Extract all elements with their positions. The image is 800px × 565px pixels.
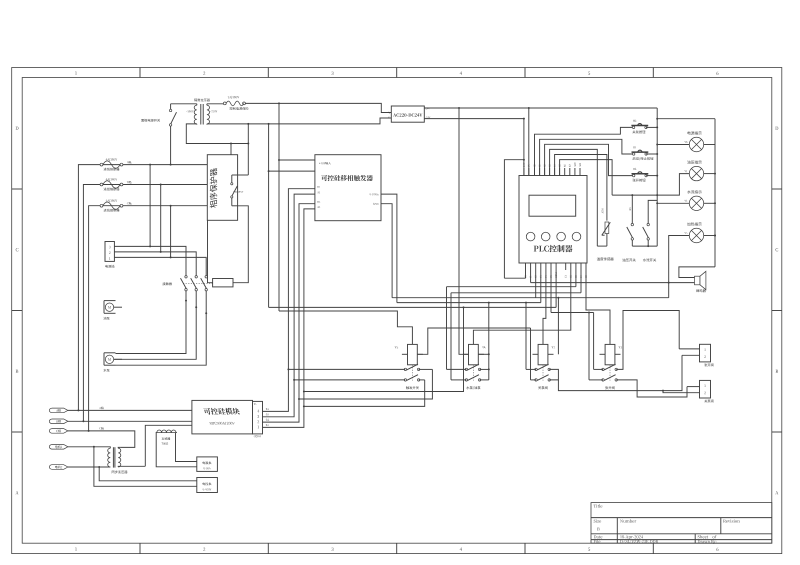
output bus wire 4 <box>392 297 669 299</box>
port flag B相 <box>49 419 68 424</box>
relay Y3 contact feeds <box>593 313 595 370</box>
border column ticks bottom <box>139 543 141 553</box>
temperature sensor label 温度传感器 <box>597 257 614 260</box>
panel power switch S1 <box>170 104 172 110</box>
wire motor1 flag to sync transformer top <box>68 446 108 448</box>
push button X0 关泵按钮 <box>632 126 634 128</box>
wire fuse F2 input to B-phase rail <box>83 185 100 422</box>
lamp 油压指示 right wire <box>704 173 715 175</box>
wire SCR pin3 G1 to trigger A1 <box>263 194 315 417</box>
indicator lamp 水流指示 <box>689 196 703 210</box>
relay Y2 coil <box>538 344 548 364</box>
wire trigger GND to PLC bus <box>381 204 392 298</box>
wire junction vertical to control bus and phase protector right pin <box>247 124 249 175</box>
ammeter P1 电流表 <box>197 457 218 472</box>
title block <box>591 503 772 544</box>
thermistor RT1 temperature sensor <box>605 222 609 234</box>
wire CT right leg to ammeter <box>176 433 197 462</box>
wire switch bottom to phase A fuse line <box>170 126 172 165</box>
wire CT left leg to ammeter <box>156 433 197 467</box>
wire fuse F3 output to phase protector <box>123 205 207 207</box>
wire +24V bus from AC-DC module to right bus <box>424 107 657 109</box>
wire gate tap to bus <box>304 307 464 391</box>
lamp 电源指示 right wire <box>704 144 715 146</box>
wire phase taps down to plug wires <box>149 165 151 247</box>
transformer label 隔离变压器 <box>194 99 210 102</box>
SCR module terminal strip CON4 <box>253 401 263 434</box>
wire motor2 flag to sync transformer bottom <box>68 466 108 468</box>
PLC display window <box>529 195 576 216</box>
wire contactor pole3 to pumps <box>116 291 207 365</box>
relay Y5 contact 2 <box>404 379 406 381</box>
border column numbers <box>75 72 77 75</box>
relay Y2 contact 1 <box>535 368 537 370</box>
sheet inner border frame <box>22 78 772 544</box>
lamp 加热指示 right wire <box>704 235 715 237</box>
long vertical feed wire 2 <box>278 103 280 311</box>
fuse name label 控制电源保险 <box>230 107 249 110</box>
wire gate net to relay Y5 contact1 <box>299 369 432 399</box>
relay Y4 contact 1 <box>465 368 467 370</box>
relay Y2 contact 2 <box>535 379 537 381</box>
relay Y3 linkage dotted line <box>609 365 611 381</box>
output bus wire 6 <box>269 306 556 308</box>
PLC input bundle wire to button X1 <box>540 139 633 175</box>
indicator lamp 加热指示 <box>689 228 703 242</box>
wire transformer primary bottom return to phase protector right pin <box>186 124 248 144</box>
wire SCR pin1 K2 to trigger A2 <box>263 209 315 428</box>
wire trigger 0V input <box>269 170 315 172</box>
wire phase protector top pin to return wire <box>230 144 232 155</box>
port flag A相 <box>49 408 68 413</box>
wire phase C to sync transformer <box>68 431 135 448</box>
indicator lamp 油压指示 <box>689 166 703 180</box>
output bus wire 5 <box>397 302 541 304</box>
push button X2 张开按钮 <box>633 174 635 176</box>
relay Y2 contact feeds <box>525 303 527 370</box>
wire contactor pole1 to pumps <box>116 291 187 354</box>
wire 0V from AC-DC module to PLC pin <box>424 118 524 120</box>
wire fuse to AC-DC module input L <box>245 103 391 112</box>
wire switch feed bus <box>612 194 657 196</box>
wire phase protector right pin down to contactor coil <box>233 206 248 283</box>
relay Y5 contact right stubs <box>419 368 433 370</box>
phase label B相 <box>127 181 132 184</box>
relay Y5 contact label 触发开关 <box>406 386 419 389</box>
border column ticks top <box>139 68 141 78</box>
phase label A相 <box>127 161 132 164</box>
relay Y4 coil <box>469 344 479 364</box>
output bus wire 1 <box>504 277 525 279</box>
relay Y5 linkage dotted line <box>411 365 413 381</box>
relay Y2 contact output long wire to connector J2 <box>558 355 682 390</box>
output bus wire 3 <box>451 292 581 294</box>
relay Y5 contact2 left feed from gate wire <box>294 379 405 381</box>
relay Y3 contact2 output to connector J3 <box>616 380 687 397</box>
relay Y2 coil feed from PLC <box>543 270 546 344</box>
phase sequence protector U2 相序保护器 <box>207 155 237 221</box>
relay Y3 contact label 张开阀 <box>605 386 614 389</box>
relay Y5 coil <box>408 344 418 364</box>
wire lamp bus to buzzer <box>679 267 715 278</box>
wire buzzer return to PLC pin <box>531 282 695 284</box>
wire sync transformer secondary up to SCR module <box>145 425 192 466</box>
phase protector internal switch <box>231 175 233 183</box>
port flag 电机2 <box>49 465 68 470</box>
lamp return bus vertical <box>714 119 716 267</box>
wire plug pin2 to contactor pole 2 <box>114 252 196 276</box>
incoming line fuse F2 4A/380V 进线熔断器 phase B <box>100 183 103 186</box>
wire trigger +10V input <box>279 159 315 161</box>
sync transformer T2 同步变压器 <box>108 448 111 467</box>
right supply bus vertical <box>656 108 658 246</box>
wire plug pin3 to contactor pole 1 <box>114 246 186 275</box>
wire SCR pin4 K1 to trigger K1 <box>263 189 315 412</box>
transformer voltage labels <box>186 110 194 112</box>
contactor linkage dashed line <box>183 283 213 285</box>
wire phase A to SCR module <box>68 409 192 411</box>
water flow switch SF1 <box>648 200 657 223</box>
wire gate net to relay Y5 contact2 <box>304 380 425 407</box>
push button X1 启动/停止按钮 <box>633 153 635 155</box>
wire fuse F1 input to A-phase rail <box>78 165 100 411</box>
wire motor2 tap to voltmeter <box>99 467 197 481</box>
wire thermistor bottom to sensor return <box>606 234 608 247</box>
X3 net label <box>629 208 631 211</box>
fuse rating label 1A/380V <box>228 96 240 99</box>
AC220-DC24V power supply module U3 <box>391 106 424 122</box>
relay Y2 contact label 关泵阀 <box>538 386 547 389</box>
relay Y5 contact1 left feed from gate wire <box>288 368 405 370</box>
incoming line fuse F3 4A/380V 进线熔断器 phase C <box>100 204 103 207</box>
port flag 电机1 <box>49 444 68 449</box>
control power fuse F0 1A/380V <box>223 102 226 105</box>
power plug connector J1 电源插 <box>105 242 114 262</box>
relay Y5 coil side pins <box>402 353 408 355</box>
relay Y3 contact1 output to connector J2 <box>616 311 679 370</box>
valve connector J3 关泵阀 <box>700 380 711 398</box>
PLC input bundle wire to thermistor <box>555 155 607 221</box>
relay Y4 coil feed from PLC <box>473 270 570 344</box>
border row ticks left and right <box>12 188 23 190</box>
wires to connector J2 <box>679 348 699 350</box>
relay Y2 linkage dotted line <box>542 365 544 381</box>
wire fuse F3 input to C-phase rail <box>89 206 101 431</box>
valve connector J2 张开阀 <box>700 344 711 362</box>
output bus wire 7 <box>550 270 552 313</box>
relay Y5 contact 1 <box>404 368 406 370</box>
relay Y3 contact 2 <box>602 379 604 381</box>
relay Y4 coil right wire to bus <box>478 353 489 355</box>
relay Y3 coil <box>605 344 615 364</box>
output bus wire 2 <box>447 286 576 288</box>
relay Y4 contact feeds <box>446 287 448 370</box>
wire transformer secondary top to control fuse <box>207 103 224 105</box>
relay Y3 coil side pins <box>600 353 606 355</box>
long vertical feed wire 1 <box>268 124 270 308</box>
relay Y3 contact 1 <box>602 368 604 370</box>
contactor label 接触器 <box>162 282 171 285</box>
wire transformer secondary bottom to AC-DC module input N <box>207 118 391 124</box>
wire SCR pin2 G2 to trigger K2 <box>263 204 315 422</box>
wire PLC 0V tap to output bus <box>504 160 524 279</box>
relay Y2 contact output loop <box>549 369 558 380</box>
wire button X2 to right bus <box>646 175 657 177</box>
PLC input bundle wire to pressure-flow switches <box>560 160 613 196</box>
wire panel switch to transformer primary top <box>171 103 197 105</box>
relay Y5 coil feed from vertical 2 <box>279 311 412 344</box>
current transformer coil <box>156 430 177 433</box>
wire lamp3 feed from supply bus <box>657 202 689 204</box>
oil pump motor M1 油泵 <box>104 300 116 302</box>
voltmeter P2 电压表 <box>197 478 218 493</box>
lamp 水流指示 right wire <box>704 202 715 204</box>
wire motor1 tap to voltmeter <box>94 447 197 487</box>
PLC label PLC控制器 <box>534 245 573 252</box>
relay Y3 coil feed from PLC <box>586 270 610 344</box>
relay Y4 linkage dotted line <box>472 365 474 381</box>
relay Y4 contact label 水泵/油泵 <box>466 386 480 389</box>
wire +24V drop to PLC top pin <box>528 108 530 176</box>
contactor coil KM1 <box>213 279 233 287</box>
wire button X0 to right bus <box>646 126 657 128</box>
panel switch label 面板电源开关 <box>141 119 160 122</box>
wire plug pin1 to contactor pole 3 <box>114 257 206 275</box>
wire phase protector switch bottom to right pin <box>232 205 238 207</box>
wire lamp supply top <box>657 118 715 120</box>
oil pressure switch SP1 <box>631 195 633 223</box>
relay Y4 contact output stubs <box>480 368 489 370</box>
wire switches common return <box>631 240 633 246</box>
wire 0V drop to PLC top pin <box>523 119 525 176</box>
wire contactor pole2 to pumps <box>114 291 196 359</box>
isolation transformer T1 隔离变压器 <box>194 105 197 124</box>
relay Y2 coil side pins <box>533 353 539 355</box>
wire phase protector switch top to right pin <box>232 174 238 176</box>
indicator lamp 电源指示 <box>689 137 703 151</box>
wire lamp4 feed from output bus <box>669 236 690 298</box>
wire phase protector bottom pin to contactor coil left <box>208 220 213 282</box>
wire lamp1 to supply bus <box>657 144 689 146</box>
PLC buttons <box>526 232 535 241</box>
PLC top pins <box>523 168 525 176</box>
buzzer LS1 蜂鸣器 <box>695 276 701 285</box>
relay Y2 coil right wire <box>557 298 559 355</box>
relay Y4 contact 2 <box>465 379 467 381</box>
PLC input bundle wire to temperature sensor return <box>550 149 598 246</box>
SCR module U4 可控硅模块 <box>192 400 253 434</box>
wire button X1 to right bus <box>646 153 657 155</box>
PLC input bundle wire to button X2 <box>545 144 633 175</box>
border row letters <box>16 127 19 130</box>
port flag C相 <box>49 429 68 434</box>
contactor KM1 接触器 three poles <box>185 276 187 278</box>
phase label C相 <box>127 202 132 205</box>
PLC bottom pins <box>525 263 527 270</box>
water pump motor M2 水泵 <box>104 352 116 354</box>
incoming line fuse F1 4A/380V 进线熔断器 phase A <box>100 163 103 166</box>
wire phase B to SCR module <box>68 420 192 422</box>
SCR phase shift trigger U5 可控硅移相触发器 <box>315 155 381 221</box>
PLC input bundle wire to button X0 <box>535 127 633 175</box>
wire fuse F1 output to phase protector <box>123 164 207 166</box>
PLC controller U6 PLC控制器 <box>519 176 587 264</box>
wire fuse F2 output to phase protector <box>123 184 207 186</box>
wire lamp2 feed from switch net <box>657 174 689 196</box>
relay Y5 coil right long wire to relay Y2 contact <box>417 328 530 354</box>
wires to connector J3 <box>687 386 700 388</box>
wire +24V drop to relay Y4 coil <box>459 108 469 354</box>
relay Y4 coil side pins <box>463 353 469 355</box>
wire trigger 0-10Vin to PLC analog bus <box>381 194 397 303</box>
